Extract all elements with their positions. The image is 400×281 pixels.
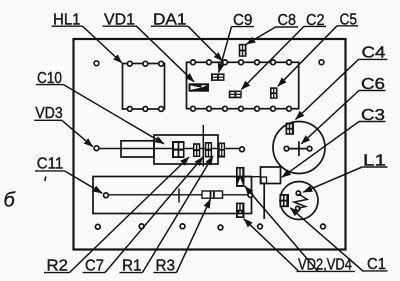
capacitor C8 footprint bbox=[239, 44, 247, 57]
label C1 bbox=[364, 256, 388, 273]
capacitor C2 footprint bbox=[229, 91, 242, 99]
wire from VD2 to C3 bbox=[234, 176, 261, 178]
leader DA1 bbox=[188, 26, 223, 61]
leader C7 bbox=[105, 157, 203, 273]
jumper tick across oscillator block bbox=[202, 125, 204, 167]
leader R2 bbox=[70, 157, 190, 273]
label DA1 bbox=[151, 11, 188, 28]
leader C6 bbox=[301, 91, 359, 144]
inductor L1 (circular case) bbox=[280, 182, 318, 220]
node: free pad top-right bbox=[319, 60, 324, 65]
leader C3 bbox=[282, 122, 359, 178]
leader C8 bbox=[246, 27, 275, 44]
leader VD4 bbox=[244, 219, 299, 272]
diode VD2 footprint bbox=[236, 167, 245, 187]
wire through oscillator block bbox=[98, 148, 241, 150]
diode VD1 symbol bbox=[189, 83, 210, 91]
leader VD1 bbox=[137, 26, 195, 82]
label R2 bbox=[44, 258, 70, 275]
label C3 bbox=[359, 107, 386, 124]
label R1 bbox=[120, 258, 143, 275]
svg-text:C11: C11 bbox=[37, 156, 64, 173]
label C7 bbox=[83, 258, 106, 275]
leader HL1 bbox=[83, 26, 123, 63]
capacitor C4 footprint bbox=[286, 123, 295, 135]
capacitor footprint (R2 target) bbox=[193, 143, 200, 157]
svg-text:VD3: VD3 bbox=[35, 105, 63, 122]
node: pad at right end of wire bbox=[248, 193, 253, 198]
label C6 bbox=[359, 76, 386, 93]
leader C11 bbox=[65, 171, 103, 193]
capacitor footprint (C7 target) bbox=[205, 142, 212, 158]
capacitor C3 (square case) bbox=[261, 167, 281, 184]
resistor R2 body bbox=[121, 141, 154, 157]
capacitor C9 footprint bbox=[211, 73, 225, 81]
label C10 bbox=[36, 70, 64, 87]
label R3 bbox=[154, 258, 177, 275]
leader C2 bbox=[241, 26, 304, 89]
label C5 bbox=[337, 11, 358, 28]
label C11 bbox=[35, 156, 65, 173]
trimmer capacitor C6 (circular case) bbox=[273, 122, 325, 174]
label VD3 bbox=[34, 105, 62, 122]
node: pad right of oscillator block bbox=[240, 147, 245, 152]
diode VD4 footprint bbox=[236, 203, 245, 218]
lower block outline bbox=[93, 177, 252, 214]
capacitor C5 footprint bbox=[270, 87, 278, 99]
board outline bbox=[74, 39, 346, 250]
IC DA1 footprint bbox=[187, 60, 299, 111]
jumper tick across lower wire bbox=[178, 189, 180, 203]
label VD1 bbox=[103, 11, 138, 28]
label C2 bbox=[304, 12, 326, 29]
leader C1 bbox=[290, 208, 363, 272]
capacitor footprint (R1 target) bbox=[218, 143, 225, 158]
leader R1 bbox=[143, 156, 214, 273]
bottom pad row bbox=[95, 224, 325, 230]
resistor R3 body bbox=[202, 191, 223, 198]
wire from C3 down to pad row bbox=[263, 184, 265, 220]
node: free pad top-left bbox=[94, 61, 99, 66]
node: pad left of R2 bbox=[94, 146, 99, 151]
capacitor C1 footprint bbox=[280, 194, 290, 207]
LED HL1 footprint bbox=[123, 61, 165, 111]
leader VD3 bbox=[62, 120, 93, 146]
stray tick under C11 bbox=[45, 177, 46, 182]
leader C9 bbox=[219, 27, 232, 73]
leader R3 bbox=[177, 199, 211, 273]
label L1 bbox=[361, 153, 388, 170]
leader L1 bbox=[303, 168, 361, 193]
capacitor C10 footprint bbox=[172, 141, 185, 158]
label C9 bbox=[232, 12, 255, 29]
node: pad C11 bbox=[104, 193, 109, 198]
leader VD2 bbox=[245, 186, 318, 272]
wire from C11 pad to pad near VD2 bbox=[106, 194, 250, 196]
label VD2,VD4 bbox=[297, 257, 356, 274]
leader C4 bbox=[296, 59, 359, 119]
leader C5 bbox=[278, 26, 337, 87]
label C4 bbox=[359, 45, 388, 62]
svg-text:б: б bbox=[4, 190, 16, 212]
oscillator block outline bbox=[154, 135, 218, 164]
label C8 bbox=[276, 12, 299, 29]
leader C10 bbox=[64, 85, 165, 144]
label HL1 bbox=[52, 11, 83, 28]
